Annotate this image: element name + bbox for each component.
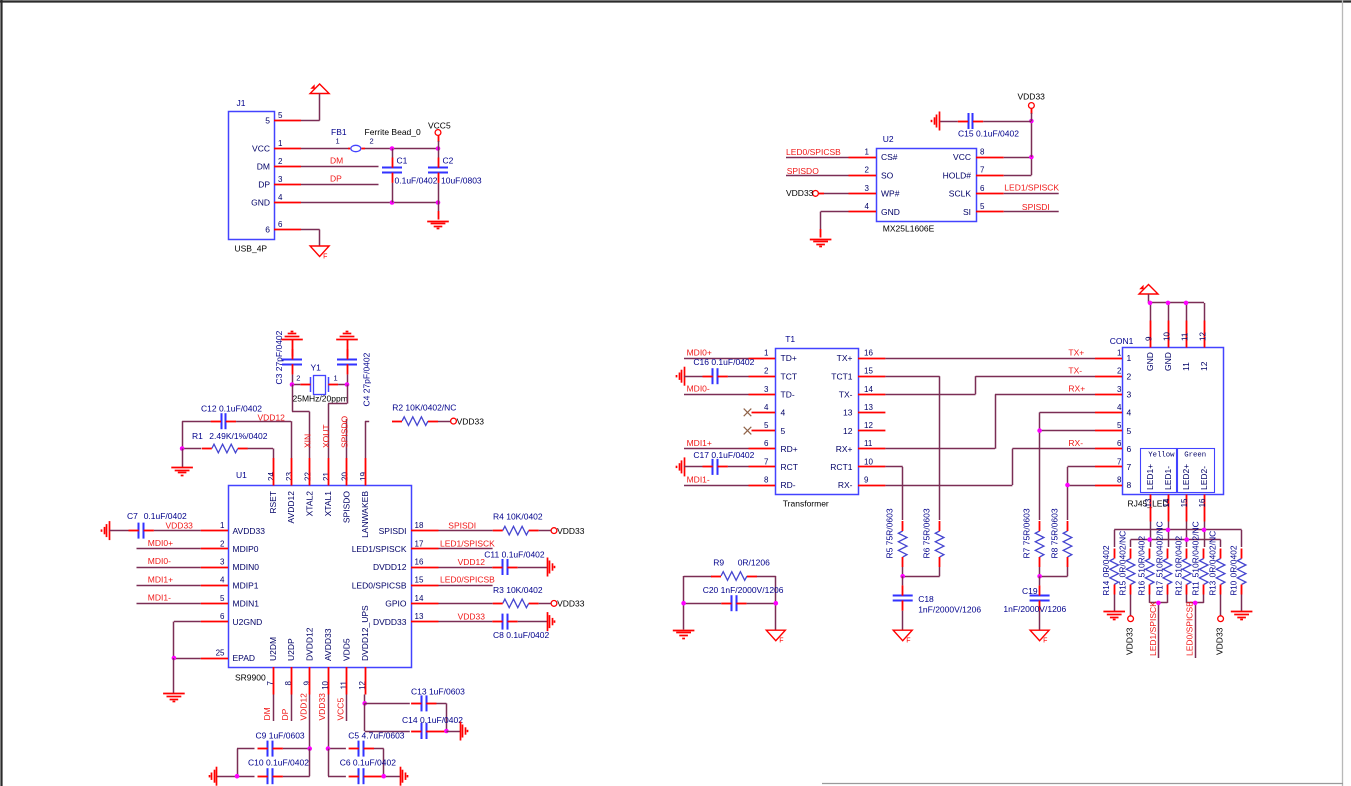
svg-text:LED1/SPISCK: LED1/SPISCK (1004, 183, 1059, 193)
wire (1151, 522, 1205, 548)
net label MDI0- (137, 556, 201, 567)
svg-text:R16: R16 (1138, 580, 1147, 595)
svg-text:8: 8 (980, 148, 985, 157)
junction (1193, 601, 1198, 606)
junction (1156, 601, 1161, 606)
ground (earth right of C8) (548, 612, 555, 631)
svg-text:DM: DM (257, 162, 270, 172)
svg-text:5: 5 (980, 202, 985, 211)
svg-text:VCC5: VCC5 (335, 698, 345, 721)
svg-text:2: 2 (370, 137, 374, 146)
svg-text:VDD33: VDD33 (1215, 627, 1225, 655)
svg-text:C6 0.1uF/0402: C6 0.1uF/0402 (340, 758, 397, 768)
svg-text:14: 14 (415, 594, 424, 603)
svg-text:MDI0+: MDI0+ (148, 538, 173, 548)
svg-text:C19: C19 (1022, 586, 1038, 596)
svg-text:13: 13 (415, 612, 424, 621)
svg-text:R14: R14 (1102, 580, 1111, 595)
svg-text:GND: GND (881, 207, 900, 217)
ground (1231, 612, 1253, 620)
capacitor C6 (328, 758, 400, 785)
svg-text:CON1: CON1 (1110, 336, 1134, 346)
net label SPISDI (1004, 202, 1059, 212)
ground (above C3) (281, 332, 303, 340)
svg-text:MDIN1: MDIN1 (233, 599, 260, 609)
capacitor C15 (940, 113, 1032, 139)
net label LED1/SPISCK (1004, 183, 1060, 194)
power flag F (pin6) (310, 246, 329, 261)
svg-text:R3 10K/0402: R3 10K/0402 (493, 585, 543, 595)
junction (345, 382, 350, 387)
svg-text:13: 13 (843, 408, 853, 418)
wire (1241, 595, 1243, 612)
svg-text:9: 9 (864, 476, 869, 485)
svg-text:SPISDI: SPISDI (1022, 202, 1050, 212)
svg-text:2: 2 (764, 367, 769, 376)
svg-text:16: 16 (415, 558, 424, 567)
power VDD33 (R2) (451, 416, 485, 426)
svg-text:3: 3 (865, 184, 870, 193)
ferrite bead FB1 (331, 127, 421, 152)
svg-text:C18: C18 (918, 594, 934, 604)
svg-text:F: F (906, 638, 910, 645)
capacitor C13 (365, 686, 465, 711)
svg-text:DP: DP (330, 174, 342, 184)
svg-text:C11 0.1uF/0402: C11 0.1uF/0402 (484, 549, 545, 559)
junction (172, 656, 177, 661)
net label VDD12 (439, 557, 493, 568)
svg-text:24: 24 (267, 472, 276, 481)
junction (1147, 537, 1152, 542)
ground (earth right of C11) (548, 558, 555, 577)
svg-text:MDI1-: MDI1- (148, 593, 171, 603)
svg-text:4: 4 (220, 576, 225, 585)
svg-text:VDD33: VDD33 (557, 526, 585, 536)
capacitor C8 (492, 614, 549, 641)
net label SPISDI (448, 520, 476, 530)
svg-text:DM: DM (262, 707, 272, 720)
svg-text:R2 10K/0402/NC: R2 10K/0402/NC (392, 403, 456, 413)
svg-text:8: 8 (1117, 476, 1122, 485)
ground (163, 694, 185, 702)
wire (301, 202, 438, 204)
power flag F (C18) (893, 630, 912, 645)
svg-text:C3 27pF/0402: C3 27pF/0402 (274, 330, 284, 384)
net label DM (262, 695, 274, 722)
net label VDD33 (439, 611, 493, 621)
svg-text:USB_4P: USB_4P (235, 244, 268, 254)
svg-text:10: 10 (1163, 332, 1172, 341)
ground (above C4) (336, 332, 358, 340)
capacitor C9 (237, 731, 310, 757)
svg-text:1nF/2000V/1206: 1nF/2000V/1206 (918, 605, 981, 615)
wire (273, 449, 275, 459)
svg-text:VDD12: VDD12 (299, 693, 309, 721)
svg-text:WP#: WP# (881, 189, 900, 199)
wire (301, 94, 320, 121)
svg-text:LED0/SPICSB: LED0/SPICSB (440, 575, 495, 585)
wire (292, 385, 310, 459)
resistor R17 510R/0402/NC (1154, 521, 1171, 595)
svg-text:RX-: RX- (838, 480, 853, 490)
svg-text:SPISDO: SPISDO (342, 491, 352, 524)
capacitor C11 (484, 549, 547, 575)
svg-text:U1: U1 (236, 470, 247, 480)
junction (180, 446, 185, 451)
wire (775, 576, 777, 630)
resistor R1 2.49K (182, 431, 273, 453)
power VDD33 (R3) (551, 599, 585, 609)
svg-text:4: 4 (1117, 403, 1122, 412)
svg-text:7: 7 (764, 457, 769, 466)
transformer T1 (749, 334, 886, 509)
svg-text:EPAD: EPAD (233, 653, 256, 663)
wire (1131, 540, 1221, 548)
junction (1037, 574, 1042, 579)
svg-text:VDD33: VDD33 (457, 416, 485, 426)
net label MDI1- (137, 593, 201, 604)
junction (326, 746, 331, 751)
ground (earth left of C15) (932, 112, 940, 131)
wire (1068, 467, 1096, 521)
svg-text:FB1: FB1 (331, 127, 347, 137)
net label LED1/SPISCK (1148, 595, 1168, 659)
svg-text:3: 3 (1127, 390, 1132, 400)
ground (673, 631, 695, 639)
svg-text:HOLD#: HOLD# (943, 170, 972, 180)
svg-text:XTAL1: XTAL1 (323, 491, 333, 517)
power VDD33 (U2 top) (1018, 92, 1046, 121)
svg-text:12: 12 (864, 421, 873, 430)
svg-text:R1: R1 (192, 431, 203, 441)
svg-text:MDI1+: MDI1+ (148, 574, 173, 584)
wire (364, 695, 366, 704)
net label LED0/SPICSB (786, 147, 849, 157)
wire (291, 421, 293, 458)
svg-text:C13 1uF/0603: C13 1uF/0603 (411, 686, 465, 696)
resistor R15 0R/0402/NC (1118, 531, 1135, 596)
junction (1184, 537, 1189, 542)
svg-text:LED1/SPISCK: LED1/SPISCK (352, 544, 407, 554)
svg-text:4: 4 (1127, 408, 1132, 418)
svg-text:TCT1: TCT1 (831, 371, 853, 381)
net label MDI0- (684, 384, 749, 395)
net label DP (301, 174, 379, 185)
svg-text:F: F (779, 638, 783, 645)
net label VDD12 (299, 693, 310, 749)
capacitor C4 (337, 339, 371, 407)
svg-text:0.1uF/0402: 0.1uF/0402 (395, 176, 438, 186)
svg-text:Ferrite Bead_0: Ferrite Bead_0 (365, 127, 421, 137)
svg-text:0R/0402/NC: 0R/0402/NC (1118, 531, 1128, 578)
wire (821, 212, 849, 230)
svg-text:17: 17 (415, 539, 424, 548)
svg-text:RCT1: RCT1 (830, 462, 852, 472)
svg-text:8: 8 (1127, 480, 1132, 490)
svg-text:TCT: TCT (781, 371, 798, 381)
junction (436, 146, 441, 151)
svg-text:C12 0.1uF/0402: C12 0.1uF/0402 (201, 404, 262, 414)
resistor R11 510R/0402/NC (1191, 521, 1208, 595)
wire (903, 576, 940, 578)
svg-text:16: 16 (1198, 498, 1207, 507)
svg-text:DP: DP (280, 708, 290, 720)
svg-text:14: 14 (864, 385, 873, 394)
svg-text:SPISDO: SPISDO (787, 166, 820, 176)
wire (824, 193, 849, 195)
svg-text:U2DM: U2DM (268, 637, 278, 661)
svg-text:R11: R11 (1192, 581, 1201, 596)
svg-text:VDD33: VDD33 (166, 520, 194, 530)
capacitor C17 (684, 450, 754, 475)
svg-text:R15: R15 (1119, 580, 1128, 595)
wire (683, 576, 685, 630)
svg-text:5: 5 (781, 426, 786, 436)
capacitor C12 (182, 404, 291, 430)
svg-text:LED0/SPICSB: LED0/SPICSB (1185, 601, 1195, 656)
svg-text:3: 3 (1117, 385, 1122, 394)
svg-text:6: 6 (278, 220, 283, 229)
svg-text:VCC5: VCC5 (428, 121, 451, 131)
resistor R8 75R/0603 (1050, 508, 1072, 576)
svg-text:20: 20 (341, 472, 350, 481)
svg-text:MX25L1606E: MX25L1606E (883, 224, 935, 234)
svg-text:2: 2 (296, 374, 300, 383)
svg-text:LED1-: LED1- (1163, 466, 1173, 490)
svg-text:VDD33: VDD33 (1125, 627, 1135, 655)
net label MDI1+ (684, 438, 749, 448)
svg-text:Transformer: Transformer (783, 499, 829, 509)
power flag (pin5) (310, 84, 329, 94)
net label LED0/SPICSB (1185, 595, 1204, 659)
net label RX- (885, 438, 1095, 485)
svg-text:2.49K/1%/0402: 2.49K/1%/0402 (209, 431, 267, 441)
wire (182, 421, 184, 448)
svg-text:12: 12 (843, 426, 853, 436)
net label MDI0+ (684, 347, 749, 358)
svg-text:VDD33: VDD33 (786, 188, 814, 198)
svg-text:VDD12: VDD12 (458, 557, 486, 567)
net label SPISDO (340, 415, 350, 458)
net label RX+ (885, 384, 1095, 449)
svg-text:DVDD12_UPS: DVDD12_UPS (360, 605, 370, 661)
ground (earth left of C16) (677, 367, 685, 386)
svg-text:VCC: VCC (953, 152, 971, 162)
wire (1040, 412, 1096, 520)
power VDD33 (R13) (1215, 595, 1225, 656)
svg-text:7: 7 (1127, 462, 1132, 472)
capacitor C7 (110, 511, 201, 538)
svg-text:DVDD12: DVDD12 (305, 627, 315, 661)
wire (182, 449, 184, 468)
svg-text:LED2-: LED2- (1199, 466, 1209, 490)
svg-text:13: 13 (864, 403, 873, 412)
svg-text:25: 25 (216, 649, 225, 658)
junction (1037, 428, 1042, 433)
svg-text:LED1+: LED1+ (1145, 464, 1155, 490)
junction (362, 701, 367, 706)
svg-text:U2GND: U2GND (233, 617, 263, 627)
wire (383, 749, 385, 777)
wire (328, 749, 330, 777)
capacitor C1 (382, 149, 438, 203)
junction (390, 146, 395, 151)
net label LED1/SPISCK (439, 538, 496, 548)
resistor R3 10K (439, 585, 552, 608)
svg-text:R5 75R/0603: R5 75R/0603 (885, 508, 895, 558)
net label TX- (885, 366, 1095, 395)
capacitor C18 (893, 576, 982, 630)
resistor R5 75R/0603 (885, 508, 907, 576)
no-connect X (T1 pin4) (744, 409, 752, 417)
svg-text:0R/0402: 0R/0402 (1229, 545, 1239, 577)
svg-text:DM: DM (330, 156, 343, 166)
svg-text:4: 4 (278, 193, 283, 202)
ground (810, 229, 832, 247)
resistor R13 0R/0402/NC (1208, 531, 1225, 596)
net label DP (280, 695, 292, 722)
svg-text:R17: R17 (1155, 580, 1164, 595)
capacitor C19 (1003, 576, 1066, 630)
svg-text:6: 6 (980, 184, 985, 193)
svg-text:SO: SO (881, 170, 894, 180)
svg-text:XTAL2: XTAL2 (305, 491, 315, 517)
junction (1166, 528, 1171, 533)
svg-text:6: 6 (265, 225, 270, 235)
ground (427, 211, 449, 229)
svg-text:LED0/SPICSB: LED0/SPICSB (786, 147, 841, 157)
svg-text:LED2+: LED2+ (1181, 464, 1191, 490)
svg-text:C20 1nF/2000V/1206: C20 1nF/2000V/1206 (703, 585, 784, 595)
junction (774, 601, 779, 606)
svg-text:10: 10 (864, 457, 873, 466)
wire (292, 384, 347, 386)
svg-text:J1: J1 (237, 98, 246, 108)
svg-text:RX+: RX+ (836, 444, 853, 454)
svg-text:TX-: TX- (839, 390, 853, 400)
svg-text:3: 3 (764, 385, 769, 394)
crystal Y1 25MHz (293, 363, 348, 404)
connector J1 USB_4P (229, 98, 302, 254)
svg-text:RSET: RSET (268, 491, 278, 514)
svg-text:U2DP: U2DP (286, 638, 296, 661)
svg-text:510R/0402: 510R/0402 (1137, 536, 1147, 578)
connector CON1 RJ45_LED (1095, 321, 1224, 522)
svg-text:1nF/2000V/1206: 1nF/2000V/1206 (1003, 604, 1066, 614)
resistor R16 510R/0402 (1137, 536, 1154, 596)
junction (444, 729, 449, 734)
junction (1148, 301, 1153, 306)
svg-text:1: 1 (764, 349, 769, 358)
ground (earth right of C6) (401, 767, 408, 786)
svg-text:Yellow: Yellow (1148, 451, 1175, 459)
wire (328, 385, 348, 459)
wire (446, 731, 460, 733)
svg-text:AVDD33: AVDD33 (323, 628, 333, 661)
power VDD33 (WP#) (786, 188, 824, 198)
svg-text:510R/0402/NC: 510R/0402/NC (1154, 521, 1164, 577)
svg-text:3: 3 (220, 558, 225, 567)
svg-text:10uF/0803: 10uF/0803 (441, 176, 482, 186)
svg-text:19: 19 (359, 472, 368, 481)
svg-text:C15 0.1uF/0402: C15 0.1uF/0402 (958, 129, 1019, 139)
svg-text:C7: C7 (127, 511, 138, 521)
svg-text:LED1/SPISCK: LED1/SPISCK (1148, 601, 1158, 656)
svg-text:XIN: XIN (303, 434, 313, 448)
junction (1202, 528, 1207, 533)
svg-text:RD+: RD+ (781, 444, 798, 454)
svg-text:XOUT: XOUT (321, 424, 331, 448)
svg-text:GND: GND (1163, 352, 1173, 371)
junction (1184, 301, 1189, 306)
wire (446, 703, 448, 731)
svg-text:SCLK: SCLK (949, 189, 972, 199)
svg-text:MDI1+: MDI1+ (687, 438, 712, 448)
svg-text:Green: Green (1184, 451, 1206, 459)
svg-text:GND: GND (251, 198, 270, 208)
wire (365, 421, 367, 458)
svg-text:LED0/SPICSB: LED0/SPICSB (352, 580, 407, 590)
svg-text:7: 7 (980, 166, 985, 175)
svg-text:14: 14 (1162, 498, 1171, 507)
wire (438, 203, 440, 212)
svg-text:TD-: TD- (781, 390, 795, 400)
svg-text:R7 75R/0603: R7 75R/0603 (1022, 508, 1032, 558)
svg-text:12: 12 (1199, 361, 1209, 371)
ground (earth left of C7) (102, 521, 110, 540)
svg-text:TX-: TX- (1068, 366, 1082, 376)
svg-text:2: 2 (220, 539, 225, 548)
IC U1 SR9900 (201, 458, 439, 695)
wire (1114, 595, 1116, 612)
svg-text:VCC: VCC (252, 144, 270, 154)
capacitor C3 (274, 330, 302, 385)
power VDD33 (R4) (551, 526, 585, 536)
svg-text:16: 16 (864, 349, 873, 358)
svg-text:C1: C1 (397, 156, 408, 166)
svg-text:5: 5 (278, 111, 283, 120)
svg-text:1: 1 (865, 148, 870, 157)
svg-text:2: 2 (1127, 371, 1132, 381)
svg-text:9: 9 (1145, 336, 1154, 341)
resistor R10 0R/0402 (1229, 545, 1246, 595)
net label TX+ (885, 347, 1095, 358)
junction (1065, 483, 1070, 488)
capacitor C16 (684, 357, 754, 384)
svg-text:SPISDI: SPISDI (379, 526, 407, 536)
svg-text:0R/0402: 0R/0402 (1101, 545, 1111, 577)
svg-text:2: 2 (1117, 367, 1122, 376)
junction (307, 746, 312, 751)
wire (237, 749, 239, 777)
svg-text:11: 11 (1181, 362, 1191, 371)
svg-text:C4 27pF/0402: C4 27pF/0402 (361, 352, 371, 406)
svg-text:R6 75R/0603: R6 75R/0603 (922, 508, 932, 558)
net label SPISDO (786, 166, 849, 176)
junction (1166, 301, 1171, 306)
svg-text:RCT: RCT (781, 462, 798, 472)
svg-text:MDI1-: MDI1- (687, 474, 710, 484)
svg-text:T1: T1 (785, 334, 795, 344)
svg-text:C10 0.1uF/0402: C10 0.1uF/0402 (248, 758, 309, 768)
svg-text:MDIP1: MDIP1 (233, 580, 259, 590)
svg-text:R10: R10 (1230, 580, 1239, 595)
ground (earth left of C17) (677, 457, 685, 476)
junction (390, 200, 395, 205)
svg-text:7: 7 (1117, 457, 1122, 466)
svg-text:2: 2 (278, 157, 283, 166)
svg-text:C8 0.1uF/0402: C8 0.1uF/0402 (493, 630, 550, 640)
